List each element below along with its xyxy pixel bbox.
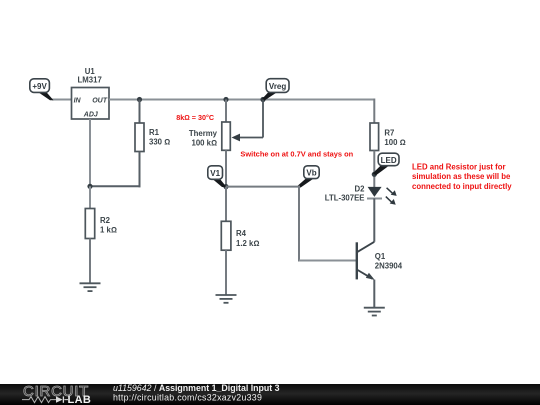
svg-text:1 kΩ: 1 kΩ <box>100 225 117 234</box>
svg-text:simulation as these will be: simulation as these will be <box>412 172 511 181</box>
wire to R2 <box>89 186 91 209</box>
wire down to R7 <box>373 99 375 124</box>
footer bar <box>0 384 540 405</box>
svg-text:OUT: OUT <box>92 97 108 104</box>
junction Vreg tap <box>260 97 265 102</box>
junction LED flag <box>372 172 377 177</box>
svg-text:8kΩ = 30°C: 8kΩ = 30°C <box>176 113 214 122</box>
svg-text:Vb: Vb <box>306 169 316 178</box>
svg-text:D2: D2 <box>355 184 366 193</box>
svg-text:Switche on at 0.7V and stays o: Switche on at 0.7V and stays on <box>240 150 353 159</box>
wire LED to collector <box>373 198 375 241</box>
svg-text:V1: V1 <box>210 169 220 178</box>
resistor R1 330Ω <box>135 123 170 152</box>
resistor R4 1.2kΩ <box>221 221 259 250</box>
svg-text:U1: U1 <box>85 67 96 76</box>
resistor R2 1kΩ <box>85 209 117 239</box>
wire to Q1 base <box>299 260 356 262</box>
footer logo CIRCUIT LAB <box>22 383 91 405</box>
svg-text:LAB: LAB <box>68 394 92 405</box>
wire R7 to LED <box>373 151 375 188</box>
red note LED and resistor <box>412 163 512 191</box>
wire Thermy to V1 <box>225 150 227 186</box>
svg-text:LM317: LM317 <box>78 76 102 85</box>
svg-text:100 kΩ: 100 kΩ <box>192 139 218 148</box>
wire R1 top <box>139 100 141 124</box>
svg-text:R4: R4 <box>236 229 247 238</box>
svg-text:+9V: +9V <box>32 82 47 91</box>
wire R1 to ADJ node <box>90 185 141 187</box>
voltage regulator U1 LM317 <box>72 67 110 119</box>
node flag LED <box>373 153 399 175</box>
junction R1 top <box>137 97 142 102</box>
wiper arrow and wire to Vreg <box>232 100 264 142</box>
svg-text:1.2 kΩ: 1.2 kΩ <box>236 239 259 248</box>
svg-text:u1159642 / Assignment 1_Digita: u1159642 / Assignment 1_Digital Input 3 <box>113 383 280 393</box>
svg-text:330 Ω: 330 Ω <box>149 138 170 147</box>
svg-text:R1: R1 <box>149 128 160 137</box>
node flag Vb <box>298 166 319 188</box>
LED D2 LTL-307EE <box>325 184 397 204</box>
svg-text:LTL-307EE: LTL-307EE <box>325 194 365 203</box>
svg-text:LED: LED <box>381 156 397 165</box>
wire ADJ down <box>89 119 91 186</box>
ground G3 <box>364 308 385 316</box>
wire U1 OUT to Vreg rail <box>109 99 374 101</box>
svg-text:2N3904: 2N3904 <box>375 262 403 271</box>
junction node V1 <box>223 184 228 189</box>
ground G1 <box>80 283 101 291</box>
svg-text:100 Ω: 100 Ω <box>384 138 405 147</box>
svg-text:R2: R2 <box>100 216 111 225</box>
svg-text:LED and Resistor just for: LED and Resistor just for <box>412 163 506 172</box>
wire R2 to ground <box>89 239 91 284</box>
wire R4 to ground <box>225 250 227 295</box>
transistor Q1 2N3904 <box>357 242 403 280</box>
wire R1 bottom <box>139 152 141 188</box>
wire +9V to U1 IN <box>52 99 72 101</box>
power flag +9V <box>30 79 54 100</box>
junction ADJ / R2 <box>87 184 92 189</box>
junction Thermy top <box>223 97 228 102</box>
svg-text:IN: IN <box>74 97 82 104</box>
ground G2 <box>216 295 237 303</box>
wire emitter to ground <box>373 280 375 308</box>
wire Vb corner down <box>298 186 300 262</box>
wire V1 to Vb corner <box>226 186 300 188</box>
svg-text:R7: R7 <box>384 129 394 138</box>
node flag Vreg <box>262 79 289 101</box>
svg-text:Vreg: Vreg <box>269 82 286 91</box>
svg-text:Q1: Q1 <box>375 252 386 261</box>
node flag V1 <box>208 166 227 188</box>
svg-text:http://circuitlab.com/cs32xazv: http://circuitlab.com/cs32xazv2u339 <box>113 392 262 402</box>
resistor R7 100Ω <box>370 123 406 151</box>
svg-text:Thermy: Thermy <box>189 129 218 138</box>
svg-text:ADJ: ADJ <box>83 112 99 119</box>
svg-text:connected to input directly: connected to input directly <box>412 182 512 191</box>
thermistor Thermy 100kΩ <box>189 122 230 150</box>
wire Thermy top <box>225 100 227 123</box>
footer text <box>113 383 280 403</box>
wire R4 top <box>225 187 227 222</box>
